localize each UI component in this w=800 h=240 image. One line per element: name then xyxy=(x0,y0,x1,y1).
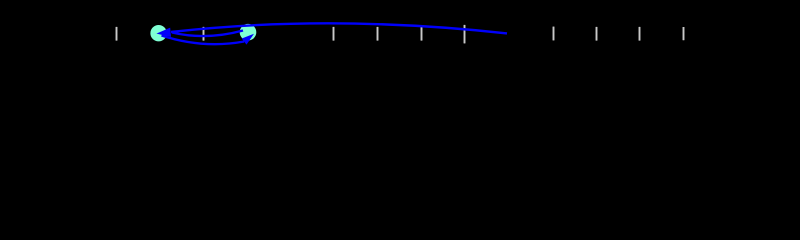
tick marker node at x=683 xyxy=(682,27,685,40)
node L (aquamarine circle) xyxy=(150,25,166,41)
arrowhead into node R xyxy=(242,34,254,45)
tick marker node at x=377 xyxy=(376,27,379,41)
tick marker node at x=553 xyxy=(552,27,555,41)
edge: deep arc node L to node R xyxy=(162,36,245,45)
node R (aquamarine circle) xyxy=(240,24,257,41)
tick marker node at x=596 xyxy=(595,27,598,41)
tick marker node at x=421 xyxy=(420,27,423,41)
tick marker node at x=640 xyxy=(638,27,641,41)
tick marker node at x=334 xyxy=(332,27,335,41)
tick marker node at x=203 xyxy=(202,27,205,41)
arrowhead into node L xyxy=(156,28,171,37)
tall tick marker node at x=465 xyxy=(463,25,466,44)
edge: long arc from far right to node L xyxy=(171,23,507,33)
edge: shallow arc node R to node L xyxy=(172,31,243,37)
tick marker node at x=116 xyxy=(115,27,118,41)
